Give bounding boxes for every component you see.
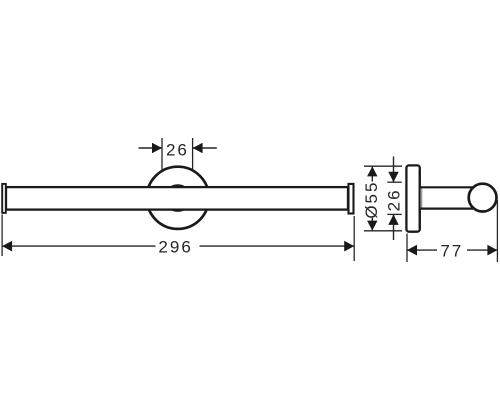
side view gray neck shading: [420, 189, 422, 208]
dim 296 extension line right: [353, 216, 355, 261]
dim 296 arrow left: [2, 241, 12, 252]
dim 296 dimension line right segment: [200, 245, 355, 247]
side view plate back edge line: [418, 170, 420, 228]
side view arm bottom line: [420, 208, 473, 210]
bar left end cap: [2, 184, 6, 213]
rosette circle (front view wall plate): [147, 167, 209, 229]
dim 26 extension line left (front view): [161, 138, 163, 172]
dim 77 extension line right: [496, 200, 498, 262]
dim 296 arrow right: [344, 241, 354, 252]
bar (front view horizontal tube): [6, 187, 348, 210]
dim Ø55 arrow down: [367, 221, 377, 231]
dim Ø55 arrow up: [367, 166, 377, 176]
dim 296 dimension line left segment: [2, 245, 155, 247]
dim 26 side arrow down (above top tick): [388, 172, 398, 183]
svg-text:296: 296: [158, 237, 192, 256]
dim 26 side line bottom segment: [393, 214, 395, 240]
dim Ø55 bottom tick: [364, 230, 402, 232]
dim 26 extension line right (front view): [192, 138, 194, 171]
dim 77 arrow right: [487, 245, 497, 256]
svg-text:26: 26: [166, 141, 189, 160]
dim 26 side line top segment: [393, 157, 395, 183]
svg-text:Ø55: Ø55: [362, 181, 381, 219]
screw circle in rosette center: [165, 185, 191, 211]
dim 296 extension line left: [1, 215, 3, 257]
dim 26 side bottom tick: [387, 213, 402, 215]
side view ball end: [469, 184, 497, 212]
dim 26 dimension line left segment: [139, 147, 163, 149]
dim Ø55 dimension line top segment: [371, 166, 373, 181]
dim 26 arrow left: [152, 143, 162, 153]
dim 77 dimension line left segment: [407, 249, 437, 251]
svg-text:26: 26: [384, 188, 403, 211]
side view wall plate: [406, 165, 419, 231]
dim 26 side arrow up (below bottom tick): [388, 214, 398, 225]
dim 26 dimension line right segment: [193, 147, 217, 149]
dim 26 arrow right: [193, 143, 203, 153]
side view arm top line: [420, 186, 473, 188]
bar right end cap: [349, 184, 354, 214]
dim 77 arrow left: [407, 245, 417, 256]
dim Ø55 dimension line bottom segment: [371, 218, 373, 231]
dim 77 extension line left: [406, 234, 408, 263]
dim 26 side top tick: [387, 181, 402, 183]
dim 77 dimension line right segment: [467, 249, 497, 251]
dim Ø55 top tick: [364, 165, 402, 167]
svg-text:77: 77: [440, 242, 463, 261]
